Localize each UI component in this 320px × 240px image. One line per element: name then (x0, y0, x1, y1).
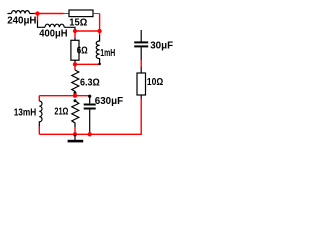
wire (99, 14, 101, 32)
wire (38, 21, 46, 28)
wire bottom rail (39, 99, 141, 135)
inductor L3 1mH (96, 35, 99, 64)
pin dot (98, 63, 101, 66)
wire (38, 127, 40, 135)
node dot (88, 132, 92, 136)
wire (64, 27, 75, 29)
wire (74, 127, 76, 134)
wire (74, 38, 76, 40)
node dot (35, 11, 39, 15)
resistor R1 15ohm (69, 10, 93, 17)
pin dot (74, 99, 77, 102)
resistor R2 6ohm (71, 40, 79, 60)
pin dot (74, 92, 77, 95)
wire (99, 31, 101, 35)
wire (140, 67, 142, 73)
resistor R3 6.3ohm (72, 70, 79, 93)
pin dot (88, 95, 91, 98)
wire (38, 96, 40, 101)
svg-text:10Ω: 10Ω (147, 77, 163, 88)
wire (74, 63, 76, 65)
node dot (73, 132, 77, 136)
wire (35, 13, 64, 15)
wire (64, 13, 70, 15)
wire (74, 93, 76, 96)
resistor R5 10ohm (137, 73, 146, 95)
wire (89, 132, 91, 135)
wire (74, 64, 76, 70)
node dot (97, 29, 101, 33)
wire (75, 30, 100, 32)
node dot (73, 94, 77, 98)
svg-text:21Ω: 21Ω (54, 107, 68, 118)
wire (30, 13, 35, 15)
svg-text:30μF: 30μF (150, 40, 173, 51)
svg-text:630μF: 630μF (95, 96, 123, 107)
wire (75, 63, 100, 65)
capacitor C2 30uF (134, 30, 148, 60)
ground (68, 134, 84, 141)
inductor L1 240uH (12, 11, 30, 14)
svg-text:240μH: 240μH (7, 16, 36, 27)
node dot (73, 29, 77, 33)
node dot (73, 62, 77, 66)
wire (93, 13, 100, 15)
wire (37, 14, 39, 21)
wire (74, 60, 76, 62)
resistor R4 21ohm (72, 101, 79, 127)
wire rail (39, 95, 89, 97)
svg-text:1mH: 1mH (100, 48, 115, 59)
svg-text:15Ω: 15Ω (69, 17, 87, 28)
wire (140, 60, 142, 67)
wire (140, 95, 142, 99)
inductor L4 13mH (39, 101, 42, 127)
wire (74, 31, 76, 38)
inductor L2 400uH (45, 24, 64, 27)
capacitor C1 630uF (84, 96, 96, 131)
svg-text:6.3Ω: 6.3Ω (80, 77, 100, 88)
svg-text:400μH: 400μH (39, 29, 67, 40)
svg-text:13mH: 13mH (14, 107, 37, 118)
wire (7, 13, 11, 15)
svg-text:6Ω: 6Ω (77, 46, 88, 57)
